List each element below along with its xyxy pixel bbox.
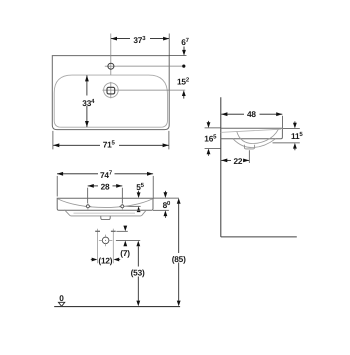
top view inner basin outline — [54, 75, 167, 127]
drain crosshair vertical — [110, 82, 112, 98]
top edge extension line right — [169, 55, 186, 57]
dim 22 line — [221, 159, 231, 161]
svg-text:0: 0 — [59, 293, 64, 303]
dim (7) top reference line — [116, 230, 127, 232]
dim 74.7 line — [57, 173, 98, 175]
dim 48 right extension line — [281, 116, 283, 128]
dim 8.0 down arrow — [164, 191, 166, 193]
dim 48 line — [221, 113, 244, 115]
dim 71.5 left arrow — [53, 143, 59, 147]
dim 5.5 up arrow — [137, 206, 141, 212]
dim 8.0 bottom extension line — [153, 209, 169, 211]
svg-text:(7): (7) — [120, 248, 130, 258]
tap hole leader line — [116, 65, 183, 67]
dim 22 left arrow — [221, 159, 227, 163]
dim (85) line upper — [178, 204, 180, 253]
side view trap box — [244, 145, 254, 149]
front underside rear contour line — [74, 212, 136, 214]
dim (85) line lower — [178, 263, 180, 301]
dim 33.4 up arrow — [85, 75, 89, 81]
dim 16.5 top reference line — [205, 127, 221, 129]
dim 5.5 bottom reference line from tap mark — [126, 205, 141, 207]
dim 11.5 down arrow — [294, 121, 296, 123]
leader dot — [182, 65, 185, 68]
trap circle — [102, 237, 109, 244]
dim (53) down arrow — [136, 301, 140, 307]
top view outer outline — [52, 56, 169, 130]
tap hole vertical extension line — [110, 34, 112, 75]
dim 11.5 bottom reference line — [273, 142, 300, 144]
dim 22 right arrow — [243, 159, 249, 163]
dim 37.3 right extension line — [168, 34, 170, 56]
dim 15.2 up arrow — [182, 90, 186, 96]
dim 74.7 right arrow — [147, 172, 153, 176]
wall line — [220, 97, 222, 237]
dim 8.0 up arrow — [164, 210, 168, 216]
dim (53) line lower — [137, 277, 139, 301]
front drain outlet box — [101, 216, 110, 220]
dim 22 extension line — [248, 150, 250, 163]
front underside bulge — [65, 210, 147, 216]
dim 74.7 extension lines — [56, 176, 58, 197]
dim 6.7 arrow — [183, 47, 185, 51]
dim (7) up arrow — [123, 241, 127, 247]
dim 71.5 extension lines — [52, 131, 54, 150]
dim 16.5 up arrow — [207, 149, 211, 155]
dim 48 right arrow — [276, 112, 282, 116]
front tap mark right — [119, 205, 126, 207]
dim 8.0 top extension line — [153, 197, 179, 199]
svg-text:22: 22 — [234, 156, 243, 166]
dim 16.5 bottom reference line — [205, 148, 221, 150]
dim 71.5 right arrow — [163, 143, 169, 147]
dim 11.5 top reference line — [283, 127, 300, 129]
side view interior bowl curve — [237, 129, 278, 143]
dim 74.7 left arrow — [57, 172, 63, 176]
side view inner rim sloped line — [221, 129, 281, 132]
front view interior bowl curve — [58, 199, 153, 208]
trap circle crosshair — [99, 239, 102, 241]
side view slab top edge — [221, 127, 283, 129]
drain leader line to 15.2 dim — [103, 89, 186, 91]
ground line — [54, 306, 180, 308]
side view underside bulge — [233, 139, 276, 148]
dim 28 right arrow — [116, 184, 122, 188]
dim (12) right arrow — [114, 258, 120, 262]
dim 37.3 right arrow — [163, 37, 169, 41]
dim 11.5 up arrow — [293, 143, 297, 149]
dim 71.5 line — [53, 144, 100, 146]
dim (12) left arrow — [91, 259, 92, 261]
dim 33.4 down arrow — [85, 121, 89, 127]
dim 28 left arrow — [88, 184, 94, 188]
dim 37.3 line — [111, 38, 130, 40]
dim (53) line upper — [137, 246, 139, 266]
svg-text:(53): (53) — [131, 267, 145, 277]
dim 37.3 left arrow — [111, 37, 117, 41]
svg-text:(12): (12) — [98, 255, 112, 265]
dim 16.5 down arrow — [208, 121, 210, 123]
svg-text:28: 28 — [101, 182, 110, 192]
wall bottom line — [221, 236, 297, 238]
dim (53) up arrow — [136, 241, 140, 247]
drain inner square — [107, 87, 115, 94]
front view slab outline — [57, 198, 153, 210]
svg-text:48: 48 — [247, 109, 256, 119]
dim (7)/(53) bottom reference line — [116, 239, 140, 241]
side view slab right edge and bottom edge — [221, 128, 283, 139]
trap axis lines with plus ticks — [97, 229, 99, 264]
dim (85) up arrow — [177, 198, 181, 204]
drain outer circle — [104, 83, 119, 98]
tap hole circle — [108, 63, 114, 69]
dim 48 left arrow — [221, 112, 227, 116]
dim (85) down arrow — [177, 301, 181, 307]
dim 33.4 line — [86, 75, 88, 95]
front tap mark left — [85, 205, 92, 207]
dim (7) down arrow — [124, 225, 126, 227]
dim 28 line — [88, 185, 98, 187]
dim 5.5 down arrow — [138, 191, 140, 193]
dim 28 extension lines down to tap marks — [87, 188, 89, 204]
tap hole crosshair horizontal — [105, 65, 117, 67]
